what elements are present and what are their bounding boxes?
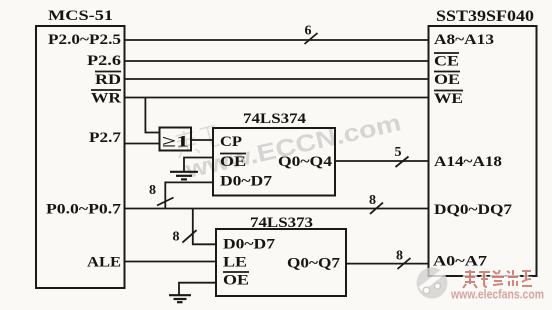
pin WE (active low) bbox=[434, 91, 463, 108]
svg-text:ALE: ALE bbox=[87, 255, 121, 271]
svg-text:74LS374: 74LS374 bbox=[243, 111, 307, 127]
svg-text:www.elecfans.com: www.elecfans.com bbox=[450, 288, 544, 302]
svg-text:Q0~Q4: Q0~Q4 bbox=[278, 154, 333, 170]
wire P2.0~P2.5 to A8~A13 bbox=[124, 39, 429, 41]
watermark faint hanzi near gate bbox=[173, 123, 221, 158]
pin WR (active low) bbox=[91, 90, 121, 107]
svg-text:RD: RD bbox=[95, 72, 121, 88]
bus slash 8 on DQ wire bbox=[370, 203, 383, 214]
svg-text:Q0~Q7: Q0~Q7 bbox=[287, 256, 341, 272]
wire RD to OE bbox=[124, 78, 429, 80]
pin OE (active low) bbox=[434, 72, 460, 89]
svg-text:D0~D7: D0~D7 bbox=[223, 237, 276, 253]
SST39SF040 box bbox=[429, 26, 537, 276]
svg-text:LE: LE bbox=[223, 255, 247, 271]
svg-text:WE: WE bbox=[434, 91, 463, 107]
MCS-51 box bbox=[36, 26, 125, 288]
svg-text:≥1: ≥1 bbox=[162, 134, 189, 151]
elecfans logo circle bbox=[417, 268, 448, 299]
svg-text:CE: CE bbox=[434, 54, 459, 70]
watermark www.ECCN.com (diagonal grey) bbox=[182, 109, 404, 184]
wire WR to WE bbox=[124, 97, 429, 99]
wire ALE to LE bbox=[124, 261, 216, 263]
pin OE of 74LS373 (active low) bbox=[223, 272, 249, 289]
svg-text:D0~D7: D0~D7 bbox=[220, 174, 273, 190]
bus slash 5 bbox=[396, 157, 409, 168]
wire 374 Q0~Q4 to A14~A18 bbox=[335, 160, 429, 162]
ground for 374 OE bbox=[170, 172, 198, 180]
svg-text:P2.0~P2.5: P2.0~P2.5 bbox=[48, 32, 121, 48]
bus slash 8 on 374 D wire bbox=[157, 198, 174, 206]
ground for 373 OE bbox=[169, 295, 191, 302]
svg-text:SST39SF040: SST39SF040 bbox=[436, 8, 534, 25]
pin RD (active low) bbox=[95, 72, 121, 89]
wire gate output to CP bbox=[191, 139, 213, 141]
wire P0.0~P0.7 to DQ0~DQ7 bbox=[124, 208, 429, 210]
svg-text:5: 5 bbox=[395, 145, 402, 160]
svg-text:P0.0~P0.7: P0.0~P0.7 bbox=[46, 202, 122, 218]
74LS373 box U3 bbox=[216, 229, 346, 296]
svg-text:P2.6: P2.6 bbox=[87, 53, 122, 69]
wire 373 OE to ground bbox=[179, 283, 216, 295]
elecfans hanzi watermark (red) bbox=[463, 270, 532, 288]
svg-text:DQ0~DQ7: DQ0~DQ7 bbox=[434, 202, 513, 218]
svg-text:P2.7: P2.7 bbox=[89, 130, 122, 146]
wire WR branch to gate input 1 bbox=[145, 98, 159, 133]
bus slash 8 on 373 D wire bbox=[182, 230, 196, 243]
svg-text:8: 8 bbox=[396, 249, 403, 264]
svg-text:CP: CP bbox=[220, 134, 242, 150]
svg-text:8: 8 bbox=[149, 183, 156, 198]
OR gate U1 (>=1) bbox=[160, 128, 192, 151]
elecfans hanzi watermark (red strokes) bbox=[463, 270, 532, 288]
svg-text:8: 8 bbox=[369, 193, 376, 208]
svg-text:WR: WR bbox=[91, 91, 121, 107]
svg-text:6: 6 bbox=[305, 24, 312, 39]
svg-text:8: 8 bbox=[173, 230, 180, 245]
svg-text:OE: OE bbox=[434, 72, 460, 88]
wire P0 bus down to 373 D0~D7 bbox=[193, 209, 216, 245]
bus slash 8 on A0~A7 wire bbox=[398, 258, 411, 269]
svg-text:OE: OE bbox=[220, 154, 246, 170]
wire 373 Q0~Q7 to A0~A7 bbox=[346, 263, 429, 265]
pin CE (active low) bbox=[434, 53, 459, 70]
svg-text:MCS-51: MCS-51 bbox=[48, 8, 113, 24]
pin OE of 74LS374 (active low) bbox=[220, 154, 246, 171]
svg-text:A0~A7: A0~A7 bbox=[433, 254, 488, 270]
74LS374 box U2 bbox=[213, 128, 335, 196]
bus slash 6 bbox=[305, 33, 318, 44]
svg-text:74LS373: 74LS373 bbox=[250, 215, 313, 231]
svg-text:OE: OE bbox=[223, 273, 249, 289]
wire P2.6 to CE bbox=[124, 60, 429, 62]
wire 374 D0~D7 to P0 bus bbox=[165, 182, 213, 208]
svg-text:A14~A18: A14~A18 bbox=[434, 154, 502, 170]
svg-text:A8~A13: A8~A13 bbox=[434, 32, 494, 48]
wire 374 OE to ground bbox=[184, 158, 213, 172]
wire P2.7 to gate input 2 bbox=[124, 143, 160, 145]
